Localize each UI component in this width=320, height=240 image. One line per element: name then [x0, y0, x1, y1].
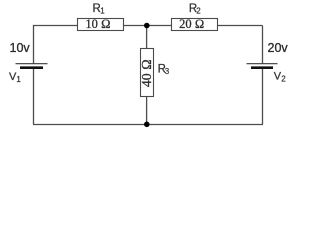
svg-text:20 Ω: 20 Ω [179, 17, 204, 31]
svg-text:3: 3 [165, 67, 170, 76]
svg-text:40 Ω: 40 Ω [139, 59, 154, 87]
wire top-middle horizontal [123, 25, 172, 27]
resistor R3 body [141, 49, 154, 97]
svg-text:2: 2 [281, 74, 286, 83]
battery V2 plate short thick [251, 66, 273, 69]
battery V1 plate long [16, 63, 48, 65]
resistor R1 body [78, 19, 124, 31]
svg-text:1: 1 [16, 75, 21, 84]
wire bottom horizontal [33, 124, 263, 126]
svg-text:1: 1 [100, 6, 105, 15]
wire left vertical lower [33, 67, 35, 125]
node junction top [144, 23, 150, 29]
wire top-left horizontal [33, 25, 78, 27]
wire right vertical upper [262, 26, 264, 64]
battery V1 plate short thick [20, 66, 43, 69]
resistor R2 body [172, 19, 218, 31]
wire R3 top lead [146, 26, 148, 50]
svg-text:2: 2 [196, 6, 201, 15]
svg-text:10v: 10v [10, 41, 31, 55]
svg-text:10 Ω: 10 Ω [85, 17, 110, 31]
wire top-right horizontal [218, 25, 263, 27]
wire left vertical upper [33, 26, 35, 64]
wire R3 bottom lead [146, 97, 148, 125]
node junction bottom [144, 122, 150, 128]
wire right vertical lower [262, 67, 264, 125]
svg-text:20v: 20v [268, 41, 289, 55]
battery V2 plate long [247, 63, 278, 65]
